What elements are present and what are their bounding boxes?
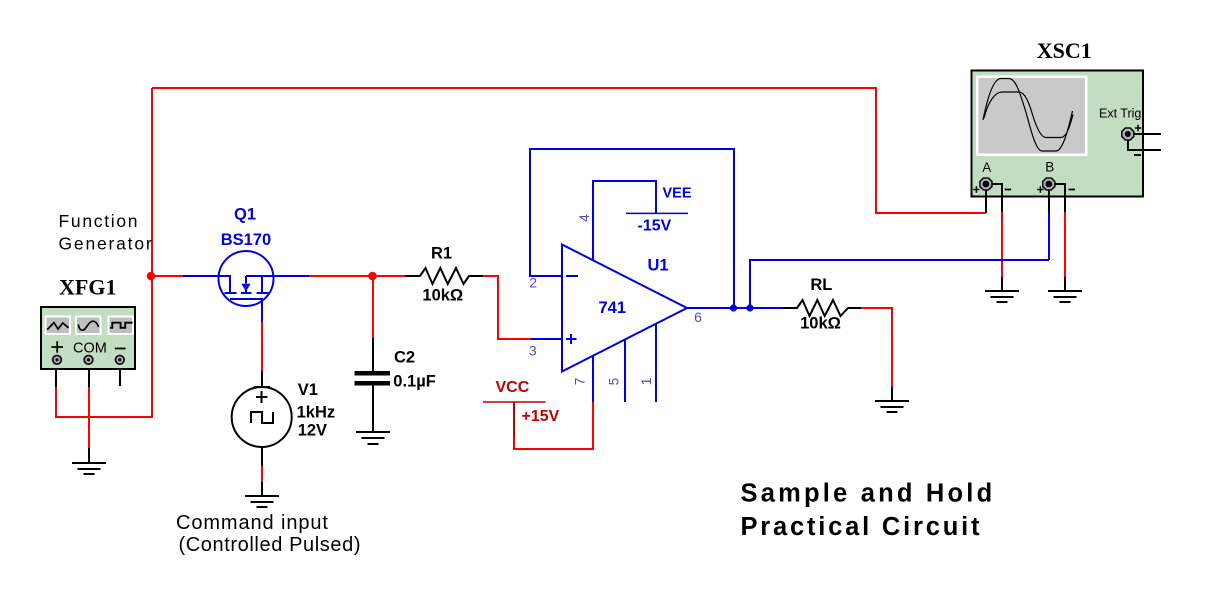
svg-text:Function: Function — [59, 211, 140, 231]
svg-text:4: 4 — [577, 214, 592, 222]
wire Q1 drain blue segment — [183, 275, 220, 277]
wire scope A minus hook — [987, 184, 1002, 196]
wire COM ground stub — [88, 448, 90, 463]
node junction blue output 1 — [730, 304, 737, 311]
wire C2 bottom lead — [372, 385, 374, 432]
ground V1 — [245, 496, 279, 507]
WIRES-BLACK — [56, 196, 1065, 496]
svg-text:V1: V1 — [298, 381, 318, 399]
svg-text:-15V: -15V — [638, 218, 672, 235]
wire XFG COM down — [88, 387, 90, 448]
wire output node to scope B plus — [750, 212, 1049, 308]
node junction red at C2 tap — [368, 272, 377, 281]
svg-text:1kHz: 1kHz — [297, 403, 336, 421]
svg-text:A: A — [982, 160, 991, 175]
WIRES-BLUE — [183, 149, 1049, 402]
wire Q1 source to node to R1 — [309, 275, 405, 277]
wire top net from XFG node to scope A plus — [152, 88, 986, 213]
wire feedback loop pin2 to output — [530, 149, 734, 308]
terminal XFG plus — [53, 356, 62, 365]
svg-text:(Controlled Pulsed): (Controlled Pulsed) — [179, 534, 362, 556]
svg-text:XFG1: XFG1 — [59, 275, 116, 300]
wire pin3 blue segment — [531, 338, 562, 340]
VCC supply — [483, 401, 546, 403]
wire ext trig stubs — [1128, 134, 1161, 150]
wire scope B plus inner stub — [1048, 184, 1050, 196]
wire Q1 drain red segment — [150, 275, 183, 277]
instrument XFG1 function generator — [41, 307, 135, 369]
svg-text:+15V: +15V — [522, 408, 560, 425]
svg-text:Practical Circuit: Practical Circuit — [741, 513, 983, 541]
resistor RL — [783, 300, 861, 316]
node junction red at XFG riser — [147, 272, 156, 281]
svg-text:7: 7 — [573, 378, 588, 386]
svg-text:0.1µF: 0.1µF — [393, 372, 436, 390]
wire scope B minus ground stub — [1064, 277, 1066, 291]
wire scope B plus stub — [1048, 196, 1050, 212]
ground RL — [875, 401, 909, 412]
VEE supply — [626, 212, 688, 214]
svg-text:BS170: BS170 — [221, 231, 271, 249]
svg-text:COM: COM — [73, 340, 107, 356]
svg-text:B: B — [1045, 160, 1054, 175]
wire pin1 stub — [655, 324, 657, 402]
terminal XFG COM — [84, 356, 93, 365]
svg-text:10kΩ: 10kΩ — [422, 286, 463, 304]
svg-text:Command input: Command input — [176, 512, 329, 534]
terminal XFG minus — [116, 356, 125, 365]
instrument XSC1 oscilloscope — [972, 71, 1162, 197]
wire RL ground stub — [891, 387, 893, 401]
svg-text:VCC: VCC — [496, 379, 530, 396]
terminal ext trig — [1122, 128, 1134, 140]
wire XFG COM stub — [88, 369, 90, 387]
terminal scope A — [980, 178, 992, 190]
ground scope B — [1048, 291, 1082, 302]
svg-text:5: 5 — [607, 378, 622, 386]
svg-text:XSC1: XSC1 — [1037, 38, 1092, 63]
svg-text:Sample and Hold: Sample and Hold — [741, 479, 996, 507]
wire V1 bottom lead — [261, 447, 263, 466]
scope trace B — [984, 92, 1073, 138]
terminal scope B — [1043, 178, 1055, 190]
wire pin4 to VEE — [593, 181, 656, 260]
wire C2 top lead — [372, 338, 374, 372]
wire V1 top lead — [261, 371, 263, 388]
capacitor C2 — [354, 371, 390, 385]
transistor Q1 arrow — [241, 284, 250, 292]
ground scope A — [985, 291, 1019, 302]
source V1 symbol — [232, 387, 292, 447]
svg-text:C2: C2 — [394, 348, 415, 366]
wire scope B minus hook — [1050, 184, 1065, 196]
scope trace A — [983, 79, 1073, 152]
svg-text:2: 2 — [529, 275, 537, 291]
svg-text:12V: 12V — [298, 421, 327, 439]
wire RL to ground red segment — [861, 308, 892, 387]
svg-text:VEE: VEE — [663, 186, 692, 202]
svg-text:3: 3 — [529, 343, 537, 359]
wire pin6 output — [687, 307, 783, 309]
wire XFG plus terminal to left vertical riser — [56, 88, 152, 417]
svg-text:Generator: Generator — [59, 233, 154, 253]
wire XFG minus stub — [119, 369, 121, 386]
ground C2 — [356, 432, 390, 444]
svg-text:6: 6 — [694, 309, 702, 325]
wire scope A minus red segment — [1001, 212, 1003, 278]
wire scope B minus red segment — [1064, 212, 1066, 278]
op-amp U1 741 — [562, 245, 687, 372]
wire Q1 gate blue segment — [261, 299, 263, 322]
svg-text:10kΩ: 10kΩ — [800, 314, 841, 332]
transistor Q1 BS170 symbol — [219, 251, 274, 322]
wire node to C2 — [372, 276, 374, 338]
wire V1 ground stub — [261, 482, 263, 496]
wire R1 to opamp pin3 — [483, 276, 531, 339]
wire pin7 stub — [592, 356, 594, 402]
node junction blue output 2 — [746, 304, 753, 311]
wire scope A minus ground stub — [1001, 277, 1003, 291]
wire Q1 source blue segment — [273, 275, 309, 277]
svg-text:RL: RL — [810, 276, 832, 294]
wire VCC rail to pin7 — [514, 402, 593, 449]
wire V1 bottom red segment — [261, 466, 263, 482]
wire XFG plus stub — [55, 369, 57, 387]
wire Q1 gate red segment — [261, 322, 263, 371]
WIRES-RED — [56, 88, 1065, 482]
wire scope A plus stub — [985, 196, 987, 213]
svg-text:R1: R1 — [431, 244, 452, 262]
wire scope A minus stub — [1001, 196, 1003, 212]
ground XFG COM — [72, 463, 106, 474]
svg-text:Ext Trig: Ext Trig — [1099, 107, 1141, 121]
wire scope B minus stub — [1064, 196, 1066, 212]
resistor R1 — [405, 268, 483, 284]
wire pin5 stub — [624, 340, 626, 402]
svg-text:Q1: Q1 — [234, 206, 256, 224]
svg-text:1: 1 — [639, 378, 654, 386]
svg-text:U1: U1 — [648, 257, 669, 275]
svg-text:741: 741 — [599, 299, 627, 317]
wire scope A plus inner stub — [985, 184, 987, 196]
